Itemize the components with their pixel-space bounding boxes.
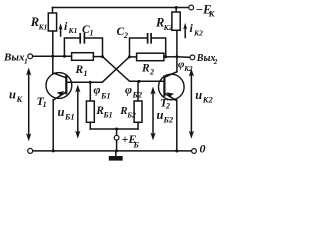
resistor R1 (72, 53, 94, 61)
node base T1 (89, 81, 92, 84)
wire top rail (53, 7, 189, 9)
svg-text:К2: К2 (193, 29, 203, 38)
wire RB bottoms joining (90, 128, 138, 130)
svg-text:φ: φ (125, 83, 132, 97)
terminal +EB (114, 135, 119, 140)
capacitor C1 bridge wires (64, 38, 102, 57)
current arrow iK1 (59, 23, 63, 36)
label Vyh2 (196, 53, 218, 66)
label C2 (117, 26, 129, 40)
terminal Vyh1 (28, 54, 33, 59)
svg-text:R: R (141, 63, 150, 75)
node EB junction (115, 128, 118, 131)
label phiK2 (178, 59, 193, 73)
svg-text:2: 2 (123, 31, 128, 40)
svg-text:2: 2 (165, 101, 170, 110)
node collector T2 (175, 55, 178, 58)
node emitter T1 on rail (52, 149, 55, 152)
terminal 0 bottom right (192, 149, 197, 154)
label iK2 (190, 21, 204, 38)
resistor RK1 (48, 8, 56, 57)
transistor T1 (46, 56, 72, 151)
node collector T1 (51, 55, 54, 58)
label 0 (200, 142, 206, 156)
svg-text:1: 1 (84, 69, 88, 78)
svg-text:К2: К2 (202, 94, 214, 104)
resistor R2 (137, 53, 164, 61)
svg-text:φ: φ (94, 83, 101, 97)
svg-text:1: 1 (90, 29, 94, 38)
label T1 (37, 94, 47, 109)
svg-text:Б1: Б1 (64, 112, 75, 122)
svg-text:Б1: Б1 (100, 91, 111, 101)
label +EB (122, 132, 140, 150)
label RK1 (30, 15, 48, 32)
svg-text:u: u (157, 108, 164, 122)
capacitor C1 plates (80, 34, 84, 43)
label RK2 (155, 16, 173, 33)
wire EB drop (116, 129, 118, 135)
svg-text:u: u (58, 105, 65, 119)
voltage arrow uK2 right (189, 69, 194, 139)
wire R2 left stub (129, 56, 136, 58)
svg-text:Вых: Вых (196, 53, 216, 64)
svg-text:2: 2 (213, 58, 218, 66)
label RB2 (119, 105, 136, 120)
svg-text:К1: К1 (68, 26, 78, 35)
transistor T2 (159, 57, 185, 151)
wire cross-coupling diagonal A to base T2 (103, 57, 165, 82)
voltage arrow uB1 (75, 85, 80, 139)
wire cross-coupling diagonal B to base T1 (66, 57, 129, 82)
node R1/C1 right (101, 55, 104, 58)
svg-text:Б: Б (133, 140, 140, 150)
label Vyh1 (3, 51, 28, 65)
ground chassis symbol (109, 151, 123, 161)
wire Vyh1 to collector node T1 (33, 55, 72, 57)
svg-text:1: 1 (43, 100, 47, 109)
voltage arrow uB2 (150, 87, 155, 141)
label uK2 (195, 88, 213, 104)
capacitor C2 bridge wires (130, 38, 166, 57)
label C1 (82, 24, 94, 38)
node junction top rail above RK2 (175, 6, 178, 9)
label iK1 (64, 19, 77, 35)
label -EK (196, 3, 216, 19)
svg-text:u: u (195, 88, 202, 102)
label uB2 (157, 108, 174, 125)
terminal bottom left (28, 148, 33, 153)
svg-text:u: u (9, 88, 16, 102)
voltage arrow uK left (26, 68, 31, 142)
terminal Vyh2 (190, 55, 195, 60)
svg-text:2: 2 (149, 68, 154, 77)
wire R1 right to node (93, 56, 102, 58)
label R2 (141, 63, 154, 77)
wire bottom rail (33, 150, 192, 152)
node C2 right stub (164, 55, 167, 58)
svg-text:R: R (75, 64, 84, 76)
capacitor C2 plates (148, 34, 152, 43)
resistor RB1 (86, 82, 94, 129)
svg-text:К2: К2 (163, 23, 173, 32)
wire collector node to terminal Vyh2 (177, 56, 190, 59)
node emitter T2 on rail (175, 150, 178, 153)
svg-text:Вых: Вых (3, 51, 25, 63)
label uB1 (58, 105, 75, 122)
current arrow iK2 (183, 23, 187, 38)
node base T2 (138, 80, 141, 83)
terminal -EK (189, 5, 194, 10)
resistor RB2 (134, 81, 142, 129)
svg-text:Б2: Б2 (126, 111, 136, 120)
svg-text:0: 0 (200, 142, 206, 156)
label T2 (160, 96, 170, 111)
label phiB2 (125, 83, 143, 100)
label RB1 (95, 105, 112, 120)
svg-text:Б1: Б1 (103, 111, 113, 120)
label phiB1 (94, 83, 111, 101)
wire R2 right to collector node T2 (164, 56, 177, 58)
node ground on rail (115, 149, 118, 152)
wire EB to rail (116, 140, 118, 151)
svg-text:Б2: Б2 (132, 90, 143, 100)
node C1 left stub (63, 55, 66, 58)
label R1 (75, 64, 88, 78)
label uK (9, 88, 24, 104)
svg-text:1: 1 (24, 56, 28, 65)
svg-text:Б2: Б2 (163, 115, 174, 125)
node C2 left stub (128, 55, 131, 58)
svg-text:К1: К1 (38, 23, 48, 32)
resistor RK2 (172, 8, 180, 57)
